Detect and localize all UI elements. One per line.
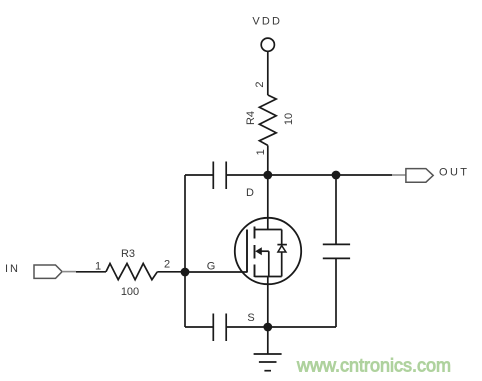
wire VDD to R4 bbox=[267, 51, 269, 95]
port IN connector bbox=[34, 265, 62, 278]
junction source node bbox=[263, 323, 272, 332]
resistor R4 bbox=[259, 95, 276, 145]
port OUT connector bbox=[406, 169, 433, 183]
junction right branch node bbox=[332, 171, 341, 180]
wire drain node to right junction bbox=[268, 174, 336, 176]
channel dash middle bbox=[254, 245, 256, 259]
drain connect bar bbox=[255, 229, 282, 231]
ground bar 2 bbox=[259, 361, 277, 363]
source connect bar bbox=[255, 276, 282, 278]
wire drain node to gate-drain capacitor bbox=[226, 174, 268, 176]
wire capacitor to source node bbox=[226, 326, 268, 328]
pin of port OUT bbox=[392, 174, 406, 176]
capacitor gate-drain (top left) bbox=[213, 162, 226, 190]
drain lead inside bbox=[267, 175, 269, 230]
ground bar 1 bbox=[254, 353, 282, 355]
body diode cathode bar bbox=[277, 244, 287, 246]
svg-text:IN: IN bbox=[5, 263, 20, 275]
wire left column to gate-source capacitor bbox=[185, 326, 213, 328]
ground bbox=[254, 327, 282, 371]
transistor M1 NMOS bbox=[235, 175, 301, 284]
svg-text:G: G bbox=[207, 261, 216, 273]
svg-text:2: 2 bbox=[164, 259, 170, 271]
svg-text:R3: R3 bbox=[121, 248, 135, 260]
svg-text:R4: R4 bbox=[245, 111, 257, 125]
body arrow head bbox=[255, 247, 262, 255]
svg-text:10: 10 bbox=[283, 113, 295, 125]
resistor R3 bbox=[106, 264, 157, 280]
body vertical bbox=[268, 251, 270, 276]
capacitor gate-source (bottom left) bbox=[213, 314, 226, 342]
wire source to source node bbox=[267, 277, 269, 328]
svg-text:D: D bbox=[246, 187, 254, 199]
gate bar bbox=[246, 230, 248, 273]
wire source node to right column bbox=[268, 326, 336, 328]
pin of port IN bbox=[62, 271, 76, 273]
wire R4 to drain node bbox=[267, 145, 269, 175]
channel dash top bbox=[254, 227, 256, 239]
svg-text:2: 2 bbox=[254, 81, 266, 87]
wire R3 to gate node bbox=[157, 271, 185, 273]
body diode triangle bbox=[278, 246, 286, 252]
svg-text:100: 100 bbox=[121, 286, 139, 298]
ground bar 3 bbox=[264, 370, 271, 372]
wire gate node to MOSFET gate bbox=[185, 271, 247, 273]
wire left column vertical bbox=[184, 175, 186, 327]
junction gate node bbox=[181, 268, 190, 277]
svg-text:OUT: OUT bbox=[439, 167, 469, 179]
wire right column lower bbox=[335, 258, 337, 327]
power port VDD bbox=[261, 38, 274, 51]
svg-text:www.cntronics.com: www.cntronics.com bbox=[296, 356, 451, 376]
junction drain node bbox=[263, 171, 272, 180]
wire capacitor to left column bbox=[185, 174, 213, 176]
svg-text:VDD: VDD bbox=[252, 16, 282, 28]
mosfet body circle bbox=[235, 218, 301, 284]
svg-text:1: 1 bbox=[255, 149, 267, 155]
body diode cathode lead bbox=[281, 252, 283, 277]
wire right junction to OUT pin bbox=[336, 174, 392, 176]
channel dash bottom bbox=[254, 265, 256, 278]
ground stub wire bbox=[267, 327, 269, 354]
body diode anode lead bbox=[281, 230, 283, 245]
svg-text:S: S bbox=[247, 312, 254, 324]
svg-text:1: 1 bbox=[95, 261, 101, 273]
wire right column upper bbox=[335, 175, 337, 244]
wire IN pin to R3 bbox=[76, 271, 106, 273]
capacitor drain-source (right) bbox=[323, 244, 350, 258]
body arrow line bbox=[261, 250, 269, 252]
